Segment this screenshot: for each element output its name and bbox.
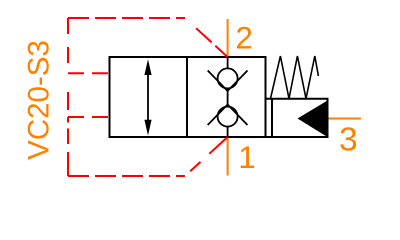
wire port 3 (orange) <box>328 118 361 120</box>
check valve CV2 (bottom): stem, seat, ball <box>208 98 248 137</box>
pilot box left edge <box>271 99 273 137</box>
spring <box>271 56 319 99</box>
svg-text:1: 1 <box>238 139 256 175</box>
pilot stub lower (red dashed) <box>68 116 110 118</box>
svg-text:3: 3 <box>339 122 358 159</box>
pilot box <box>266 99 328 137</box>
svg-text:VC20-S3: VC20-S3 <box>23 40 56 160</box>
svg-text:2: 2 <box>235 20 253 56</box>
pilot stub upper (red dashed) <box>68 72 110 74</box>
flow arrow (double headed) <box>144 59 151 135</box>
pilot line top diagonal to port 2 (red dashed) <box>196 28 228 57</box>
cell divider <box>186 57 188 137</box>
wire port 2 (orange) <box>227 19 229 57</box>
pilot line bottom diagonal to port 1 (red dashed) <box>190 137 227 171</box>
pilot line envelope left (red dashed) <box>67 18 69 176</box>
pilot line envelope top (red dashed) <box>68 17 185 19</box>
valve body envelope <box>110 57 266 137</box>
pilot triangle (solenoid wedge) <box>298 101 328 138</box>
pilot line envelope bottom (red dashed) <box>68 175 185 177</box>
check valve CV1 (top): stem, ball, seat <box>208 57 248 98</box>
wire port 1 (orange) <box>227 137 229 176</box>
